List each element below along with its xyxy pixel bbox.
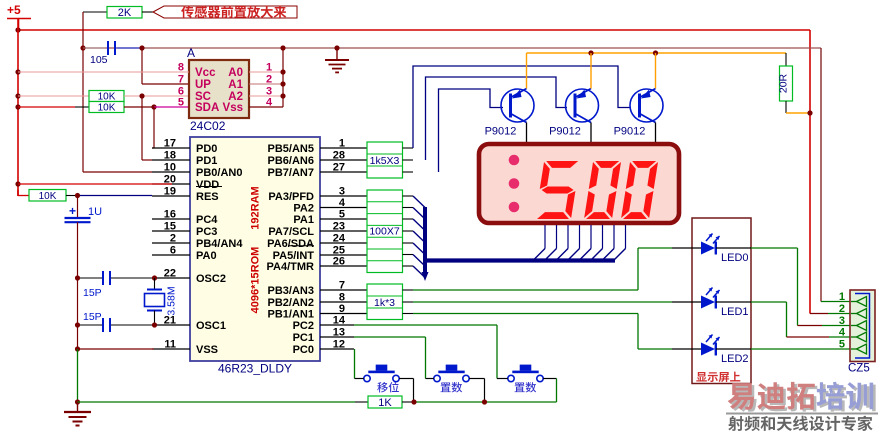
- svg-text:24: 24: [333, 233, 346, 245]
- svg-text:VSS: VSS: [196, 344, 218, 356]
- display DS1 body: [479, 144, 679, 223]
- svg-text:1k5X3: 1k5X3: [370, 155, 400, 167]
- svg-text:5: 5: [178, 97, 184, 109]
- wire sensor net left of 2K: [83, 11, 107, 13]
- svg-text:P9012: P9012: [549, 126, 581, 138]
- svg-text:1U: 1U: [88, 206, 102, 218]
- wire LED0 cathode to CZ5 pin3: [751, 248, 798, 326]
- svg-text:4: 4: [839, 327, 846, 339]
- svg-text:2: 2: [170, 233, 176, 245]
- wire base drive T3 (outer blue L): [413, 66, 631, 148]
- LED2: [672, 335, 751, 366]
- wire CZ5 pin3 entry: [798, 325, 852, 327]
- svg-text:2: 2: [839, 303, 845, 315]
- resistor 20R: [778, 53, 793, 113]
- wire base drive T1 (inner blue L): [439, 89, 504, 172]
- svg-text:13: 13: [333, 327, 345, 339]
- svg-text:20R: 20R: [778, 73, 790, 93]
- wire RES net navy: [78, 195, 153, 197]
- svg-text:PA6/SDA: PA6/SDA: [267, 238, 314, 250]
- junction SC x142: [139, 93, 144, 98]
- svg-text:PB0/AN0: PB0/AN0: [196, 167, 242, 179]
- resistor 2K: [107, 7, 142, 20]
- wire PC2 to button3: [354, 325, 497, 379]
- MCU U1 46R23_DLDY body: [190, 137, 320, 376]
- junction OSC2 taps: [75, 275, 157, 280]
- wire +5 rail drop to CZ5 pin2: [809, 30, 811, 314]
- wire CZ5 pin2 entry: [810, 313, 851, 315]
- wire 24C02 A0: [249, 71, 283, 73]
- junction 24C02 address column: [280, 45, 285, 98]
- wire button2 terminals: [426, 379, 485, 403]
- junction 20R tap: [807, 110, 812, 115]
- display bottom pins to bus: [534, 225, 626, 260]
- svg-text:1k*3: 1k*3: [374, 297, 395, 309]
- svg-text:9: 9: [339, 303, 345, 315]
- wire LED0 anode net: [413, 248, 672, 290]
- svg-text:PD0: PD0: [196, 143, 217, 155]
- svg-text:16: 16: [164, 209, 176, 221]
- junction SDA x154: [151, 104, 156, 109]
- svg-text:11: 11: [164, 339, 176, 351]
- svg-text:15: 15: [164, 221, 176, 233]
- LED0: [672, 234, 751, 265]
- wire bottom green net: [78, 401, 557, 403]
- junction x83 GND-cap: [80, 45, 85, 50]
- wire GND drop to CZ5 pin1: [820, 48, 822, 302]
- svg-text:PA0: PA0: [196, 250, 217, 262]
- wire SC down to PD1: [142, 96, 152, 160]
- svg-text:PA7/SCL: PA7/SCL: [268, 226, 314, 238]
- wire Q3 collector to display: [655, 123, 657, 143]
- svg-text:3: 3: [839, 315, 845, 327]
- svg-text:18: 18: [164, 150, 176, 162]
- bus entries from 100X7: [413, 196, 425, 278]
- svg-text:PB3/AN3: PB3/AN3: [268, 285, 314, 297]
- wire left +5 column x18: [17, 19, 19, 197]
- wire sensor column x83 down to PB0: [83, 12, 152, 172]
- junction OSC1 taps: [75, 322, 157, 327]
- resistor 10K (SC pullup): [18, 91, 189, 103]
- wire PC1 to button2: [354, 337, 426, 379]
- wire 24C02 A2: [249, 95, 283, 97]
- svg-text:5: 5: [839, 339, 845, 351]
- resistor network RN 100X7: [367, 190, 413, 273]
- wire Q2 emitter to orange rail: [590, 53, 592, 89]
- svg-text:26: 26: [333, 256, 345, 268]
- svg-text:PB4/AN4: PB4/AN4: [196, 238, 243, 250]
- wire emitter rail orange: [527, 52, 787, 54]
- svg-text:A: A: [187, 46, 195, 60]
- capacitor C 15P (OSC1): [78, 311, 153, 332]
- transistor Q1 P9012 (PNP): [485, 89, 534, 138]
- transistor Q2 P9012 (PNP): [549, 89, 598, 138]
- svg-text:10K: 10K: [98, 103, 116, 114]
- svg-text:LED2: LED2: [721, 353, 749, 365]
- junction x18 taps: [15, 69, 20, 186]
- wire LED2 cathode to CZ5 pin5: [751, 348, 851, 350]
- svg-text:15P: 15P: [83, 287, 102, 299]
- switch SW2 set: [434, 365, 469, 393]
- svg-text:4096*15ROM: 4096*15ROM: [250, 247, 262, 314]
- watermark logo yiditop: [730, 384, 876, 412]
- svg-text:UP: UP: [195, 79, 211, 91]
- junction emitter rail: [588, 50, 658, 55]
- svg-text:1: 1: [839, 291, 845, 303]
- wire 2K to pennant: [142, 11, 153, 13]
- svg-text:192RAM: 192RAM: [250, 186, 262, 229]
- junction bottom left: [75, 399, 80, 404]
- wire +5 rail y30: [18, 29, 810, 31]
- ground (bottom left): [64, 402, 91, 426]
- wire Q1 emitter to orange rail: [526, 53, 528, 89]
- wire 24C02 Vss to GND column: [249, 48, 283, 107]
- svg-text:1: 1: [339, 138, 345, 150]
- svg-text:12: 12: [333, 339, 345, 351]
- svg-text:6: 6: [170, 245, 176, 257]
- crystal Y 3.58M: [145, 278, 178, 325]
- svg-text:Vcc: Vcc: [195, 67, 216, 79]
- svg-text:PA2: PA2: [293, 203, 314, 215]
- svg-text:5: 5: [339, 209, 345, 221]
- svg-text:2K: 2K: [118, 7, 132, 19]
- wire PC0 to button1: [354, 349, 356, 379]
- svg-text:100X7: 100X7: [369, 226, 400, 238]
- svg-text:PD1: PD1: [196, 155, 217, 167]
- svg-text:46R23_DLDY: 46R23_DLDY: [218, 362, 292, 376]
- svg-text:7: 7: [178, 74, 184, 86]
- junction RES: [75, 193, 80, 198]
- svg-text:CZ5: CZ5: [848, 363, 870, 375]
- display digit 0 (tens): [584, 161, 621, 219]
- svg-text:VDD: VDD: [196, 179, 219, 191]
- IC U-A 24C02: [178, 46, 273, 133]
- wire 24C02 A1: [249, 83, 283, 85]
- junction VSS: [75, 346, 80, 351]
- svg-text:PC3: PC3: [196, 226, 217, 238]
- wire GND rail y48: [83, 47, 821, 49]
- svg-text:PC1: PC1: [293, 332, 314, 344]
- svg-text:A0: A0: [228, 67, 243, 79]
- svg-text:P9012: P9012: [485, 126, 517, 138]
- svg-text:Vss: Vss: [223, 102, 243, 114]
- power symbol +5: [7, 3, 31, 30]
- MCU right pin stubs and numbers: [320, 138, 367, 351]
- svg-text:15P: 15P: [83, 311, 102, 323]
- resistor network RN 1k5X3: [367, 142, 413, 178]
- svg-text:PB1/AN1: PB1/AN1: [268, 309, 314, 321]
- svg-text:7: 7: [339, 280, 345, 292]
- svg-text:23: 23: [333, 221, 345, 233]
- svg-text:22: 22: [164, 268, 176, 280]
- svg-text:PC0: PC0: [293, 344, 314, 356]
- wire button3 terminals: [497, 379, 557, 403]
- wire button1 terminals: [355, 379, 414, 403]
- svg-text:3.58M: 3.58M: [166, 286, 178, 315]
- svg-text:3: 3: [339, 186, 345, 198]
- resistor network RN 1k*3: [367, 284, 413, 320]
- junction +5 left: [15, 27, 20, 32]
- svg-text:PB6/AN6: PB6/AN6: [268, 155, 314, 167]
- svg-text:4: 4: [339, 197, 346, 209]
- svg-text:17: 17: [164, 138, 176, 150]
- resistor 10K (reset): [18, 190, 78, 203]
- svg-text:LED0: LED0: [721, 252, 749, 264]
- MCU left pin stubs and numbers: [152, 138, 190, 351]
- svg-text:PB5/AN5: PB5/AN5: [268, 143, 314, 155]
- svg-text:10K: 10K: [39, 191, 57, 202]
- display digit 0 (units): [621, 161, 658, 219]
- svg-text:OSC1: OSC1: [196, 320, 226, 332]
- svg-text:PC2: PC2: [293, 320, 314, 332]
- watermark slogan: [728, 416, 872, 431]
- watermark underline: [726, 413, 878, 415]
- svg-text:PA4/TMR: PA4/TMR: [267, 261, 315, 273]
- wire LED1 cathode to CZ5 pin4: [751, 302, 787, 337]
- wire VDD red: [18, 183, 190, 185]
- pennant label sensor preamp input: [153, 6, 297, 18]
- capacitor C 15P (OSC2): [78, 271, 153, 299]
- wire SDA to 24C02 and down to PD0: [152, 107, 189, 148]
- display colon dots: [509, 155, 520, 213]
- wire green down from VSS junction: [77, 349, 79, 402]
- svg-text:27: 27: [333, 162, 345, 174]
- wire CZ5 pin4 entry: [787, 336, 852, 338]
- svg-text:RES: RES: [196, 191, 219, 203]
- wire LED2 anode net: [413, 314, 672, 350]
- capacitor C 1U electrolytic: [65, 196, 103, 223]
- LED1: [672, 288, 751, 319]
- svg-text:SDA: SDA: [195, 102, 219, 114]
- wire left maroon column x77: [77, 222, 79, 349]
- capacitor C 105: [83, 41, 142, 66]
- svg-text:PB7/AN7: PB7/AN7: [268, 167, 314, 179]
- resistor 10K (SDA pullup): [18, 102, 154, 114]
- svg-text:P9012: P9012: [614, 126, 646, 138]
- junction bottom net: [411, 399, 487, 404]
- svg-text:+: +: [69, 204, 76, 218]
- wire Q2 collector to display: [590, 123, 592, 143]
- wire 20R to +5 drop (orange): [786, 112, 810, 114]
- svg-text:OSC2: OSC2: [196, 273, 226, 285]
- svg-text:14: 14: [333, 315, 346, 327]
- wire Q3 emitter to orange rail: [655, 53, 657, 89]
- svg-text:8: 8: [339, 292, 345, 304]
- svg-text:PB2/AN2: PB2/AN2: [268, 297, 314, 309]
- svg-text:105: 105: [90, 54, 108, 66]
- svg-text:24C02: 24C02: [190, 119, 226, 133]
- LED panel box: [692, 218, 751, 384]
- wire LED1 anode net: [413, 301, 672, 303]
- switch SW3 set: [508, 365, 543, 393]
- svg-text:A1: A1: [228, 79, 243, 91]
- svg-text:LED1: LED1: [721, 306, 749, 318]
- resistor 1K: [355, 396, 414, 409]
- wire CZ5 pin1 entry: [821, 301, 851, 303]
- wire x142 down to 24C02 UP: [142, 48, 189, 84]
- svg-text:28: 28: [333, 150, 345, 162]
- wire VSS to left column: [78, 348, 155, 350]
- wire Q1 collector to display: [526, 123, 528, 143]
- wire Vcc row to +5 rail: [18, 71, 189, 73]
- ground (top rail): [325, 45, 349, 72]
- svg-text:PA3/PFD: PA3/PFD: [268, 191, 314, 203]
- display digit 5: [535, 161, 580, 219]
- bus horizontal to display: [423, 258, 615, 262]
- svg-text:PA1: PA1: [293, 214, 314, 226]
- transistor Q3 P9012 (PNP): [614, 89, 663, 138]
- svg-text:1K: 1K: [378, 397, 392, 409]
- svg-text:19: 19: [164, 186, 176, 198]
- junction cap-GND x142: [139, 45, 144, 50]
- switch SW1 shift: [364, 365, 399, 393]
- svg-text:+5: +5: [7, 3, 21, 17]
- wire base drive T2 (middle blue L): [426, 77, 568, 160]
- svg-text:10: 10: [164, 162, 176, 174]
- svg-text:10K: 10K: [98, 92, 116, 103]
- bus vertical: [422, 207, 429, 281]
- connector CZ5: [839, 290, 875, 375]
- svg-text:PC4: PC4: [196, 214, 218, 226]
